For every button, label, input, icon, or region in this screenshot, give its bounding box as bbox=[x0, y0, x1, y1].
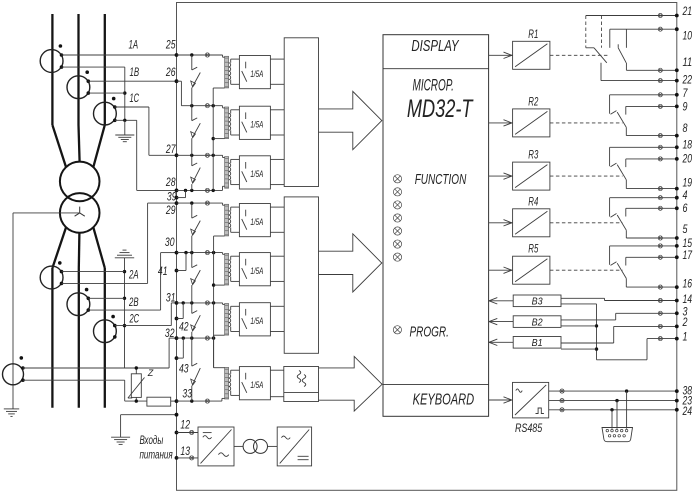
transformer T1 secondary wires bbox=[231, 59, 240, 84]
detachable contact terminal 21 bbox=[658, 13, 662, 17]
svg-text:24: 24 bbox=[682, 406, 692, 418]
detachable contact terminal 16 bbox=[658, 285, 662, 289]
label terminal 8 bbox=[683, 123, 688, 135]
detachable contact at y55 bbox=[205, 53, 209, 57]
wire B2 to terminal 3 bbox=[561, 313, 677, 320]
label terminal 10 bbox=[683, 31, 693, 43]
detachable contact terminal 8 bbox=[658, 134, 662, 138]
label terminal 26 bbox=[165, 67, 176, 79]
label terminal 2B bbox=[128, 297, 138, 309]
svg-text:1/5A: 1/5A bbox=[250, 169, 263, 179]
svg-text:32: 32 bbox=[165, 328, 175, 340]
svg-text:26: 26 bbox=[165, 67, 176, 79]
svg-text:16: 16 bbox=[683, 279, 693, 291]
R4 contact group bbox=[550, 198, 677, 238]
DB9 taps bbox=[612, 391, 627, 429]
label 1/5A channel 5 bbox=[250, 266, 263, 276]
tap dots 1B bbox=[87, 79, 91, 95]
svg-text:18: 18 bbox=[683, 139, 693, 151]
svg-text:41: 41 bbox=[158, 266, 168, 278]
wire 2C top to terminal 31 bbox=[115, 303, 177, 326]
function LED 4 bbox=[393, 214, 401, 222]
wire terminal 13 bbox=[177, 456, 199, 460]
T3 primary bottom feed bbox=[223, 185, 225, 187]
R5 contact group bbox=[550, 246, 677, 287]
wire 32 internal bbox=[177, 336, 216, 339]
svg-text:1/5A: 1/5A bbox=[250, 217, 263, 227]
label terminal 20 bbox=[682, 153, 693, 165]
wire MCU to R1 bbox=[489, 52, 513, 58]
svg-text:MD32-T: MD32-T bbox=[407, 95, 474, 123]
label MD32-T bbox=[407, 95, 474, 123]
detachable contact RS485 y409.8 bbox=[560, 408, 564, 412]
T6 primary bottom feed bbox=[214, 335, 225, 338]
wire terminal 23 bbox=[549, 399, 677, 402]
bus arrow 2 bbox=[319, 234, 382, 292]
label terminal 31 bbox=[166, 293, 176, 305]
power transformer T1 secondary circle bbox=[60, 193, 100, 233]
label terminal 5 bbox=[683, 224, 688, 236]
svg-text:2B: 2B bbox=[128, 297, 138, 309]
transformer T2 secondary winding bbox=[229, 114, 231, 131]
display section line bbox=[383, 68, 489, 70]
label terminal 19 bbox=[683, 177, 693, 189]
T4 primary bottom feed bbox=[214, 235, 225, 237]
wire B2 to MCU bbox=[489, 318, 513, 324]
frame ground symbol bbox=[111, 437, 130, 444]
label terminal 17 bbox=[683, 250, 693, 262]
wire MCU to R3 bbox=[489, 173, 513, 179]
svg-text:1: 1 bbox=[683, 332, 688, 344]
svg-text:питания: питания bbox=[140, 450, 173, 462]
svg-text:DISPLAY: DISPLAY bbox=[411, 38, 460, 55]
transformer T5 primary winding bbox=[225, 253, 229, 285]
label 1/5A channel 6 bbox=[250, 316, 263, 326]
transformer T5 secondary winding bbox=[229, 260, 231, 277]
terminal 42 jumper bbox=[177, 303, 184, 319]
detachable contact at y105.7 bbox=[205, 104, 209, 108]
label 1/5A channel 2 bbox=[250, 120, 263, 130]
svg-text:6: 6 bbox=[683, 203, 688, 215]
detachable contact terminal 17 bbox=[658, 255, 662, 259]
label R2 bbox=[528, 96, 538, 108]
label MICROP. bbox=[413, 77, 454, 95]
polarity dot 1C bbox=[112, 97, 116, 101]
channel 3 output wires bbox=[270, 159, 284, 184]
RS485 pulse symbol bbox=[536, 408, 544, 414]
test switch 1 bbox=[191, 55, 201, 106]
detachable contact at y203.1 bbox=[205, 201, 209, 205]
T5 primary top stub bbox=[223, 253, 225, 255]
label R4 bbox=[528, 196, 538, 208]
power transformer T1 primary circle bbox=[60, 162, 100, 202]
relay coil R2 bbox=[513, 109, 550, 137]
ground CT group2 inverted bbox=[115, 250, 134, 258]
svg-text:1/5A: 1/5A bbox=[250, 266, 263, 276]
label terminal 23 bbox=[682, 396, 693, 408]
detachable contact at y190.4 bbox=[205, 188, 209, 192]
label terminal 2 bbox=[682, 317, 688, 329]
T4 primary top stub bbox=[223, 204, 225, 206]
T1 primary bottom feed bbox=[213, 87, 224, 89]
label R3 bbox=[528, 150, 538, 162]
current range unit 1/5A channel 3 bbox=[239, 156, 270, 189]
polarity dot 2A bbox=[58, 261, 62, 265]
detachable contact at y302.9 bbox=[205, 301, 209, 305]
svg-text:R1: R1 bbox=[528, 29, 538, 41]
varistor Z bbox=[128, 366, 145, 403]
label terminal 2A bbox=[128, 270, 138, 282]
R3 contact group bbox=[550, 147, 677, 188]
svg-text:29: 29 bbox=[165, 205, 176, 217]
svg-text:20: 20 bbox=[682, 153, 693, 165]
transformer T7 primary winding bbox=[225, 367, 229, 399]
label terminal 1 bbox=[683, 332, 688, 344]
wire terminal 22 bbox=[601, 63, 677, 81]
channel 5 output wires bbox=[270, 256, 284, 281]
svg-text:17: 17 bbox=[683, 250, 693, 262]
relay coil R1 bbox=[513, 41, 550, 69]
common wire CT group1 bbox=[62, 67, 127, 120]
svg-text:13: 13 bbox=[180, 446, 190, 458]
label FUNCTION bbox=[415, 172, 467, 188]
relay coil R4 bbox=[513, 209, 550, 237]
label terminal 18 bbox=[683, 139, 693, 151]
wire MCU to R2 bbox=[489, 120, 513, 126]
svg-text:12: 12 bbox=[180, 420, 190, 432]
label 1/5A channel 3 bbox=[250, 169, 263, 179]
detachable contact terminal 4 bbox=[658, 196, 662, 200]
filter box channel 7 bbox=[284, 367, 319, 402]
svg-text:FUNCTION: FUNCTION bbox=[415, 172, 467, 188]
transformer T3 primary winding bbox=[225, 157, 229, 189]
svg-text:1/5A: 1/5A bbox=[250, 120, 263, 130]
svg-text:30: 30 bbox=[165, 237, 175, 249]
polarity dot 1B bbox=[85, 70, 89, 74]
function LED 2 bbox=[393, 188, 401, 196]
label KEYBOARD bbox=[413, 392, 475, 409]
wire B3 to terminal 14 bbox=[561, 298, 677, 300]
label terminal 22 bbox=[682, 75, 693, 87]
svg-text:B1: B1 bbox=[532, 337, 543, 349]
detachable contact terminal 19 bbox=[658, 187, 662, 191]
T6 primary top stub bbox=[223, 303, 225, 305]
button unit B2 bbox=[513, 316, 561, 328]
svg-text:R2: R2 bbox=[528, 96, 538, 108]
label terminal 1B bbox=[130, 67, 140, 79]
wire 2A bottom to terminal 29 bbox=[62, 203, 177, 283]
label Vhody bbox=[140, 435, 164, 447]
wire terminal 21 bbox=[586, 15, 677, 17]
detachable contact terminal 15 bbox=[658, 244, 662, 248]
wire 2B top to common bbox=[88, 297, 124, 299]
progr LED bbox=[393, 326, 401, 334]
label terminal 29 bbox=[165, 205, 176, 217]
function LED 7 bbox=[393, 253, 401, 261]
svg-text:1/5A: 1/5A bbox=[250, 316, 263, 326]
label terminal 13 bbox=[180, 446, 190, 458]
common wire CT group2 bbox=[123, 258, 126, 368]
polarity dot zero-seq CT bbox=[20, 356, 25, 382]
wire MCU to R5 bbox=[489, 267, 513, 273]
label terminal 4 bbox=[683, 190, 688, 202]
wire terminal 10 bracket bbox=[610, 29, 677, 48]
detachable contact RS485 y400.6 bbox=[560, 399, 564, 403]
phase line C bbox=[93, 14, 105, 408]
detachable contact terminal 2 bbox=[658, 324, 662, 328]
label terminal 12 bbox=[180, 420, 190, 432]
label terminal 14 bbox=[683, 294, 693, 306]
PSU transformer bbox=[234, 439, 277, 453]
label terminal 16 bbox=[683, 279, 693, 291]
current range unit 1/5A channel 5 bbox=[239, 253, 270, 286]
label terminal 6 bbox=[683, 203, 688, 215]
svg-text:31: 31 bbox=[166, 293, 176, 305]
wire terminal 38 bbox=[549, 389, 677, 392]
AC/DC converter bbox=[198, 427, 234, 466]
transformer T3 secondary wires bbox=[231, 159, 240, 184]
test switch 3 bbox=[191, 155, 201, 190]
label terminal 27 bbox=[165, 144, 176, 156]
current transformer 1B bbox=[67, 76, 90, 99]
test switch 4 bbox=[191, 203, 201, 253]
transformer T6 secondary wires bbox=[231, 306, 240, 331]
R1 contact dashed risers bbox=[586, 16, 602, 48]
RS485 sine symbol bbox=[516, 389, 522, 392]
current range unit 1/5A channel 2 bbox=[239, 106, 270, 139]
transformer T7 secondary wires bbox=[231, 370, 240, 395]
detachable contact terminal 1 bbox=[658, 337, 662, 341]
wire 2B bottom to terminal 30 bbox=[88, 253, 176, 311]
svg-text:B2: B2 bbox=[532, 317, 543, 329]
T1 primary top stub bbox=[223, 56, 225, 58]
current range unit 1/5A channel 4 bbox=[239, 204, 270, 237]
svg-text:R5: R5 bbox=[528, 244, 538, 256]
relay coil R5 bbox=[513, 256, 550, 284]
wire 25 internal bbox=[177, 53, 223, 57]
wire 1C common to terminal 28 bbox=[115, 119, 177, 191]
channel 2 output wires bbox=[270, 110, 284, 135]
svg-text:1A: 1A bbox=[129, 40, 139, 52]
svg-text:Входы: Входы bbox=[140, 435, 164, 447]
svg-text:1B: 1B bbox=[130, 67, 140, 79]
transformer T4 primary winding bbox=[225, 204, 229, 236]
polarity dot 1A bbox=[59, 44, 63, 48]
label B1 bbox=[532, 337, 543, 349]
RS485 interface box bbox=[513, 382, 549, 418]
function LED 5 bbox=[393, 227, 401, 235]
label terminal 30 bbox=[165, 237, 175, 249]
svg-text:2: 2 bbox=[682, 317, 688, 329]
wire 1B to terminal 26 bbox=[88, 80, 176, 82]
svg-text:22: 22 bbox=[682, 75, 693, 87]
R1 contact blades bbox=[594, 44, 626, 63]
polarity dot 2C bbox=[111, 315, 115, 319]
svg-text:Z: Z bbox=[147, 368, 154, 378]
wire 28 internal bbox=[177, 186, 223, 192]
phase line B bbox=[79, 14, 80, 408]
tap dots 2B bbox=[87, 297, 91, 312]
tap dots 2A bbox=[60, 270, 64, 285]
label terminal 1A bbox=[129, 40, 139, 52]
detachable contact terminal 3 bbox=[658, 311, 662, 315]
polarity dot 2B bbox=[85, 288, 89, 292]
zero-sequence CT bbox=[3, 364, 24, 385]
svg-text:28: 28 bbox=[165, 177, 176, 189]
transformer T4 secondary winding bbox=[229, 211, 231, 228]
svg-text:10: 10 bbox=[683, 31, 693, 43]
R2 contact group bbox=[550, 95, 677, 136]
channel 4 output wires bbox=[270, 207, 284, 232]
detachable contact terminal 18 bbox=[658, 145, 662, 149]
svg-text:R4: R4 bbox=[528, 196, 538, 208]
terminal dots right frame bbox=[675, 14, 679, 412]
T2 primary top stub bbox=[223, 107, 225, 109]
channel 1 output wires bbox=[270, 59, 284, 84]
label DISPLAY bbox=[411, 38, 460, 55]
wire terminal 24 bbox=[549, 408, 677, 411]
phase line A bbox=[52, 14, 66, 408]
transformer T2 primary winding bbox=[225, 107, 229, 139]
svg-text:KEYBOARD: KEYBOARD bbox=[413, 392, 475, 409]
svg-text:27: 27 bbox=[165, 144, 176, 156]
label terminal 3 bbox=[683, 306, 688, 318]
label terminal 43 bbox=[179, 364, 189, 376]
label terminal 42 bbox=[179, 322, 189, 334]
wire 27 internal bbox=[177, 154, 223, 158]
label terminal 24 bbox=[682, 406, 692, 418]
function LED 6 bbox=[393, 240, 401, 248]
transformer T1 secondary winding bbox=[229, 63, 231, 80]
keyboard section line bbox=[383, 384, 489, 386]
wire 2A top to common bbox=[62, 271, 125, 273]
svg-text:7: 7 bbox=[683, 88, 688, 100]
svg-text:R3: R3 bbox=[528, 150, 538, 162]
svg-text:1/5A: 1/5A bbox=[250, 380, 263, 390]
transformer T4 secondary wires bbox=[231, 207, 240, 232]
label terminal 7 bbox=[683, 88, 688, 100]
wire 26 internal jog bbox=[177, 81, 223, 108]
transformer T3 secondary winding bbox=[229, 163, 231, 180]
svg-text:1C: 1C bbox=[130, 93, 140, 105]
detachable contact terminal 11 bbox=[658, 68, 662, 72]
transformer T1 primary winding bbox=[225, 56, 229, 88]
relay coil R3 bbox=[513, 162, 550, 190]
label B2 bbox=[532, 317, 543, 329]
svg-text:1/5A: 1/5A bbox=[250, 69, 263, 79]
transformer T7 secondary winding bbox=[229, 374, 231, 391]
transformer star point Y bbox=[75, 207, 85, 217]
label terminal 25 bbox=[165, 40, 176, 52]
svg-text:21: 21 bbox=[682, 6, 692, 18]
svg-text:2A: 2A bbox=[128, 270, 138, 282]
svg-text:14: 14 bbox=[683, 294, 693, 306]
terminal dots left frame bbox=[175, 53, 179, 460]
label terminal 38 bbox=[683, 386, 693, 398]
wire MCU to R4 bbox=[489, 220, 513, 226]
label RS485 bbox=[515, 423, 543, 435]
svg-text:19: 19 bbox=[683, 177, 693, 189]
svg-text:9: 9 bbox=[683, 102, 688, 114]
svg-text:8: 8 bbox=[683, 123, 688, 135]
label terminal 39 bbox=[167, 192, 177, 204]
test switch 6 bbox=[191, 303, 201, 338]
detachable contact at y338.1 bbox=[205, 336, 209, 340]
wire zero-seq top to terminal 32 bbox=[23, 338, 177, 368]
button unit B3 bbox=[513, 295, 561, 307]
label terminal 11 bbox=[683, 57, 693, 69]
label terminal 15 bbox=[683, 238, 693, 250]
svg-text:11: 11 bbox=[683, 57, 693, 69]
function LED 1 bbox=[393, 175, 401, 183]
tap dots 1A bbox=[60, 53, 64, 69]
resistor R33 bbox=[147, 397, 177, 406]
wire 1C to terminal 27 bbox=[115, 107, 177, 155]
current transformer 1A bbox=[40, 50, 63, 73]
wire 29 internal bbox=[177, 201, 223, 205]
svg-text:RS485: RS485 bbox=[515, 423, 543, 435]
current range unit 1/5A channel 7 bbox=[239, 367, 270, 400]
label terminal 2C bbox=[129, 314, 140, 326]
DC/DC converter bbox=[277, 427, 311, 466]
T5 primary bottom feed bbox=[214, 284, 225, 286]
ground CT group1 bbox=[115, 120, 134, 141]
tap dots 2C bbox=[113, 324, 117, 339]
svg-text:33: 33 bbox=[182, 389, 192, 401]
transformer T2 secondary wires bbox=[231, 110, 240, 135]
detachable contact terminal 7 bbox=[658, 93, 662, 97]
wire 31 internal bbox=[177, 301, 223, 304]
wire terminal 11 bbox=[626, 63, 676, 71]
terminal 41 jumper bbox=[177, 253, 187, 271]
common vertical group1 primaries bbox=[212, 88, 215, 190]
input multiplexer box 2 bbox=[284, 197, 318, 353]
wire 30 internal bbox=[177, 251, 223, 254]
T7 primary bottom feed bbox=[222, 397, 225, 399]
current range unit 1/5A channel 1 bbox=[239, 56, 270, 89]
wire zero-seq bottom to terminal 33 bbox=[23, 380, 147, 401]
device enclosure frame bbox=[177, 3, 677, 491]
svg-text:2C: 2C bbox=[129, 314, 140, 326]
T3 primary top stub bbox=[223, 157, 225, 159]
detachable contact terminal 9 bbox=[658, 104, 662, 108]
detachable contact terminal 5 bbox=[658, 236, 662, 240]
label 1/5A channel 1 bbox=[250, 69, 263, 79]
common vertical group2 primaries bbox=[212, 236, 215, 368]
svg-text:5: 5 bbox=[683, 224, 688, 236]
label terminal 33 bbox=[182, 389, 192, 401]
label Z bbox=[147, 368, 154, 378]
detachable contact at y155.3 bbox=[205, 153, 209, 157]
detachable contact terminal 14 bbox=[658, 298, 662, 302]
current transformer 2C bbox=[94, 320, 117, 343]
wire MCU to RS485 bbox=[489, 397, 513, 403]
label terminal 21 bbox=[682, 6, 692, 18]
channel 7 output wires bbox=[270, 370, 283, 397]
T2 primary bottom feed bbox=[213, 138, 224, 140]
label terminal 1C bbox=[130, 93, 140, 105]
ground neutral bbox=[4, 404, 19, 417]
detachable contact terminal 10 bbox=[658, 27, 662, 31]
detachable contact RS485 y391.1 bbox=[560, 389, 564, 393]
svg-text:42: 42 bbox=[179, 322, 189, 334]
label 1/5A channel 4 bbox=[250, 217, 263, 227]
wire terminal 12 bbox=[177, 430, 199, 434]
label B3 bbox=[532, 296, 543, 308]
detachable contact at y401.1 bbox=[205, 399, 209, 403]
detachable contact terminal 20 bbox=[658, 157, 662, 161]
frame ground wire bbox=[121, 415, 177, 438]
